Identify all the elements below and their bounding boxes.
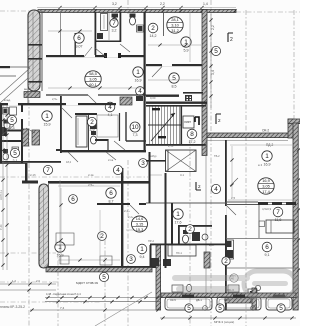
svg-text:3,9: 3,9 <box>90 128 95 132</box>
svg-text:1,2: 1,2 <box>12 279 16 283</box>
svg-text:7: 7 <box>46 167 50 174</box>
svg-text:ОК-5: ОК-5 <box>224 298 230 302</box>
svg-text:2,2: 2,2 <box>211 25 215 30</box>
svg-text:3,2: 3,2 <box>112 28 117 32</box>
svg-text:2: 2 <box>218 118 221 123</box>
svg-text:3,4: 3,4 <box>211 70 215 75</box>
svg-text:2: 2 <box>198 184 201 189</box>
svg-text:2,2+: 2,2+ <box>124 209 130 213</box>
svg-text:9,07: 9,07 <box>76 44 83 48</box>
svg-text:16,9: 16,9 <box>262 178 270 183</box>
svg-text:17,4: 17,4 <box>262 189 270 194</box>
svg-text:8,7: 8,7 <box>109 199 114 203</box>
svg-text:6: 6 <box>71 196 75 203</box>
svg-text:2,0: 2,0 <box>36 279 40 283</box>
svg-text:7,4: 7,4 <box>60 306 65 310</box>
svg-text:0,00: 0,00 <box>150 96 156 100</box>
svg-text:8: 8 <box>190 131 194 138</box>
svg-text:МДОТ СТЗБ 09: МДОТ СТЗБ 09 <box>76 281 98 285</box>
svg-text:3,05: 3,05 <box>262 183 270 188</box>
svg-text:4: 4 <box>138 88 142 95</box>
svg-text:5,9: 5,9 <box>184 48 189 52</box>
svg-text:8,5: 8,5 <box>172 84 177 88</box>
svg-text:28,1: 28,1 <box>171 17 179 22</box>
svg-text:15,3: 15,3 <box>136 227 144 232</box>
svg-text:9,4: 9,4 <box>140 255 145 259</box>
svg-text:5: 5 <box>214 48 218 55</box>
svg-text:ТБ-2: ТБ-2 <box>214 154 220 158</box>
svg-text:2-1а: 2-1а <box>108 158 114 162</box>
svg-text:2: 2 <box>224 258 228 265</box>
svg-text:ДБ-1: ДБ-1 <box>196 298 202 302</box>
svg-text:7: 7 <box>276 209 280 216</box>
svg-text:1: 1 <box>140 246 144 253</box>
svg-text:ПР-2: ПР-2 <box>148 239 154 243</box>
svg-text:15,9: 15,9 <box>44 122 51 126</box>
svg-text:2,5+: 2,5+ <box>168 144 174 148</box>
svg-text:3,10: 3,10 <box>171 22 179 27</box>
svg-text:5: 5 <box>10 117 14 124</box>
svg-text:4,48 - Кирпичная стена Р-4,4: 4,48 - Кирпичная стена Р-4,4 <box>46 292 81 296</box>
svg-text:1: 1 <box>136 69 140 76</box>
svg-text:5: 5 <box>172 75 176 82</box>
svg-text:4: 4 <box>214 186 218 193</box>
svg-text:5: 5 <box>102 274 106 281</box>
svg-text:60,1: 60,1 <box>89 82 97 87</box>
svg-text:вент.: вент. <box>24 87 31 91</box>
svg-text:2,2+: 2,2+ <box>128 215 134 219</box>
svg-text:3-1: 3-1 <box>180 173 184 177</box>
svg-text:5: 5 <box>187 305 191 312</box>
svg-text:10: 10 <box>131 124 139 131</box>
svg-text:2: 2 <box>188 226 192 233</box>
svg-text:14,2: 14,2 <box>150 34 157 38</box>
svg-text:ПХ-1: ПХ-1 <box>176 251 182 255</box>
svg-text:2: 2 <box>230 37 233 43</box>
svg-text:3: 3 <box>129 256 133 263</box>
svg-text:2: 2 <box>90 119 94 126</box>
svg-text:ЛИФТ: ЛИФТ <box>184 120 191 124</box>
svg-text:3,2: 3,2 <box>112 2 117 6</box>
svg-text:16,9: 16,9 <box>135 78 142 82</box>
svg-text:14,6: 14,6 <box>136 216 144 221</box>
svg-text:6: 6 <box>77 35 81 42</box>
svg-text:ж.3: ж.3 <box>258 163 263 167</box>
svg-text:31,2: 31,2 <box>171 28 179 33</box>
svg-text:3,05: 3,05 <box>89 76 97 81</box>
svg-text:1,4: 1,4 <box>203 2 208 6</box>
svg-text:2-1б: 2-1б <box>30 173 36 177</box>
svg-text:17,6: 17,6 <box>175 220 182 224</box>
svg-text:7,3: 7,3 <box>133 133 138 137</box>
svg-text:9,1: 9,1 <box>265 253 270 257</box>
svg-text:2: 2 <box>100 233 104 240</box>
svg-text:2,5+: 2,5+ <box>88 183 94 187</box>
svg-text:3: 3 <box>141 160 145 167</box>
svg-text:1: 1 <box>176 211 180 218</box>
svg-text:платы КР-3-25-2: платы КР-3-25-2 <box>0 305 25 309</box>
svg-text:ОК-5: ОК-5 <box>170 298 176 302</box>
svg-text:7: 7 <box>112 20 116 27</box>
svg-text:1,6+: 1,6+ <box>126 96 132 100</box>
svg-text:НОП 2-х: НОП 2-х <box>0 189 3 200</box>
svg-text:2: 2 <box>151 25 155 32</box>
svg-text:58,5: 58,5 <box>89 71 97 76</box>
svg-text:6: 6 <box>265 244 269 251</box>
svg-text:2,5+: 2,5+ <box>52 97 58 101</box>
svg-text:16,9: 16,9 <box>264 162 271 166</box>
svg-text:2-1в: 2-1в <box>88 173 94 177</box>
svg-text:18,2: 18,2 <box>66 160 72 164</box>
svg-text:3,15: 3,15 <box>136 221 144 226</box>
svg-text:Р-44: Р-44 <box>0 224 3 230</box>
svg-text:ОК-2: ОК-2 <box>262 129 269 133</box>
svg-text:5: 5 <box>218 305 222 312</box>
svg-text:2,5: 2,5 <box>231 196 236 200</box>
svg-text:МГФ-3 (опция): МГФ-3 (опция) <box>214 320 234 324</box>
svg-text:5: 5 <box>13 150 17 157</box>
svg-text:5: 5 <box>279 305 283 312</box>
svg-text:1: 1 <box>265 153 269 160</box>
svg-text:6: 6 <box>109 190 113 197</box>
svg-text:4,5х0,9: 4,5х0,9 <box>262 207 272 211</box>
svg-text:2,2: 2,2 <box>160 2 165 6</box>
svg-text:1: 1 <box>45 113 49 120</box>
svg-text:17,2: 17,2 <box>189 140 196 144</box>
svg-text:4: 4 <box>116 167 120 174</box>
